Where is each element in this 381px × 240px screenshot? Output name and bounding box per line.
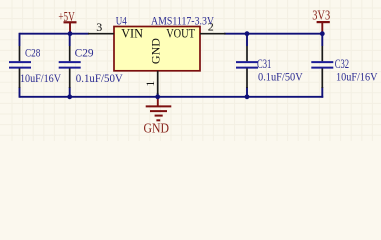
- svg-text:3: 3: [96, 20, 102, 34]
- wire output rail: [224, 33, 323, 35]
- svg-text:VIN: VIN: [121, 27, 143, 41]
- pin name VOUT: [166, 27, 195, 41]
- pin 3 (VIN): [88, 20, 114, 34]
- capacitor C29: [59, 45, 123, 88]
- sheet background: [0, 0, 381, 141]
- wire C32 branch top: [321, 33, 323, 46]
- wire C28 branch top: [19, 33, 21, 46]
- wire C31 branch bottom: [246, 87, 248, 97]
- svg-text:U4: U4: [116, 13, 127, 27]
- ground: [144, 97, 172, 136]
- wire C31 branch top: [246, 34, 248, 46]
- wire C32 branch bottom: [321, 87, 323, 98]
- pin 2 (VOUT): [200, 20, 226, 34]
- svg-text:AMS1117-3.3V: AMS1117-3.3V: [151, 13, 214, 27]
- capacitor C31: [236, 46, 303, 88]
- node GND junction: [155, 94, 160, 99]
- node C31 bottom junction: [245, 94, 250, 99]
- power +5V: [58, 9, 76, 34]
- svg-text:C29: C29: [75, 45, 94, 59]
- regulator U4 body: [114, 27, 200, 71]
- designator U4: [116, 13, 127, 27]
- pin name GND (rotated): [148, 38, 162, 64]
- svg-text:C28: C28: [25, 45, 40, 59]
- wire top input rail: [20, 33, 90, 35]
- node 3V3 junction: [320, 31, 325, 36]
- wire C29 branch top: [69, 34, 71, 46]
- svg-text:+5V: +5V: [58, 9, 75, 24]
- svg-text:GND: GND: [144, 121, 170, 136]
- svg-text:GND: GND: [148, 38, 162, 64]
- power 3V3: [312, 8, 330, 34]
- svg-text:10uF/16V: 10uF/16V: [336, 70, 378, 84]
- pin name VIN: [121, 27, 143, 41]
- pin 1 (GND tab): [145, 71, 158, 95]
- svg-text:VOUT: VOUT: [166, 27, 195, 41]
- capacitor C28: [9, 45, 61, 88]
- wire C29 branch bottom: [69, 87, 71, 97]
- svg-text:0.1uF/50V: 0.1uF/50V: [76, 71, 123, 85]
- wire bottom rail: [20, 96, 324, 98]
- comment AMS1117-3.3V: [151, 13, 214, 27]
- svg-text:0.1uF/50V: 0.1uF/50V: [258, 70, 303, 84]
- node C31 top junction: [245, 31, 250, 36]
- wire GND stub: [157, 93, 159, 97]
- node C29 bottom junction: [67, 94, 72, 99]
- svg-text:3V3: 3V3: [312, 8, 330, 23]
- node +5V junction: [68, 31, 73, 36]
- svg-text:1: 1: [145, 80, 157, 86]
- wire C28 branch bottom: [19, 87, 21, 98]
- capacitor C32: [311, 46, 377, 88]
- svg-text:10uF/16V: 10uF/16V: [20, 71, 61, 85]
